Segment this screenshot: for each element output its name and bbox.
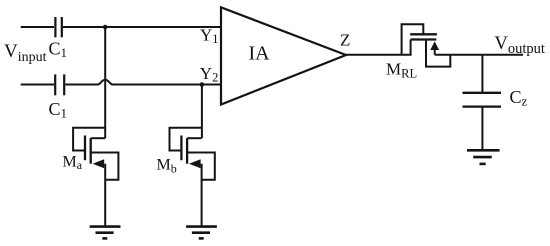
wire: MRL source to Voutput	[435, 54, 523, 56]
svg-text:IA: IA	[249, 43, 271, 65]
wire: bottom wire with crossover hop to IA input Y2	[65, 80, 221, 85]
wire: Cz to ground	[481, 107, 483, 150]
svg-text:Ma: Ma	[63, 153, 83, 172]
svg-text:C1: C1	[49, 38, 68, 60]
ground below Ma	[90, 227, 121, 239]
wire: top input wire from C1 to IA input Y1	[63, 26, 221, 28]
transistor Q Mb (diode-connected NMOS)	[170, 128, 215, 227]
wire: top input wire (left of C1)	[21, 26, 54, 28]
capacitor Cz	[463, 93, 502, 107]
capacitor C1 (top)	[55, 17, 61, 37]
transistor Q MRL (diode-connected load, horizontal)	[402, 24, 451, 66]
svg-text:Voutput: Voutput	[495, 34, 545, 57]
capacitor C1 (bottom)	[55, 74, 64, 95]
ground below Mb	[186, 227, 217, 239]
svg-text:MRL: MRL	[386, 60, 417, 81]
ground below Cz	[467, 150, 500, 164]
svg-text:Y2: Y2	[200, 64, 219, 85]
wire: IA output Z to MRL gate/drain	[346, 54, 412, 56]
svg-text:Z: Z	[340, 31, 350, 50]
wire: bottom input wire (left of C1)	[21, 84, 54, 86]
op-amp U IA (instrumentation amplifier triangle)	[221, 7, 346, 104]
svg-text:Mb: Mb	[157, 157, 177, 176]
svg-text:Cz: Cz	[510, 87, 528, 109]
node: junction of Y2 wire and Mb drain	[200, 82, 205, 87]
wire: Mb drain vertical	[201, 85, 203, 139]
svg-text:Vinput: Vinput	[4, 41, 47, 65]
node: junction of Y1 wire and Ma drain	[103, 25, 108, 30]
transistor Q Ma (diode-connected NMOS)	[73, 128, 118, 227]
wire: Ma drain vertical (crosses bottom wire)	[104, 27, 106, 138]
node: junction at Cz branch	[481, 55, 483, 93]
svg-text:C1: C1	[49, 99, 68, 121]
svg-text:Y1: Y1	[200, 26, 219, 47]
